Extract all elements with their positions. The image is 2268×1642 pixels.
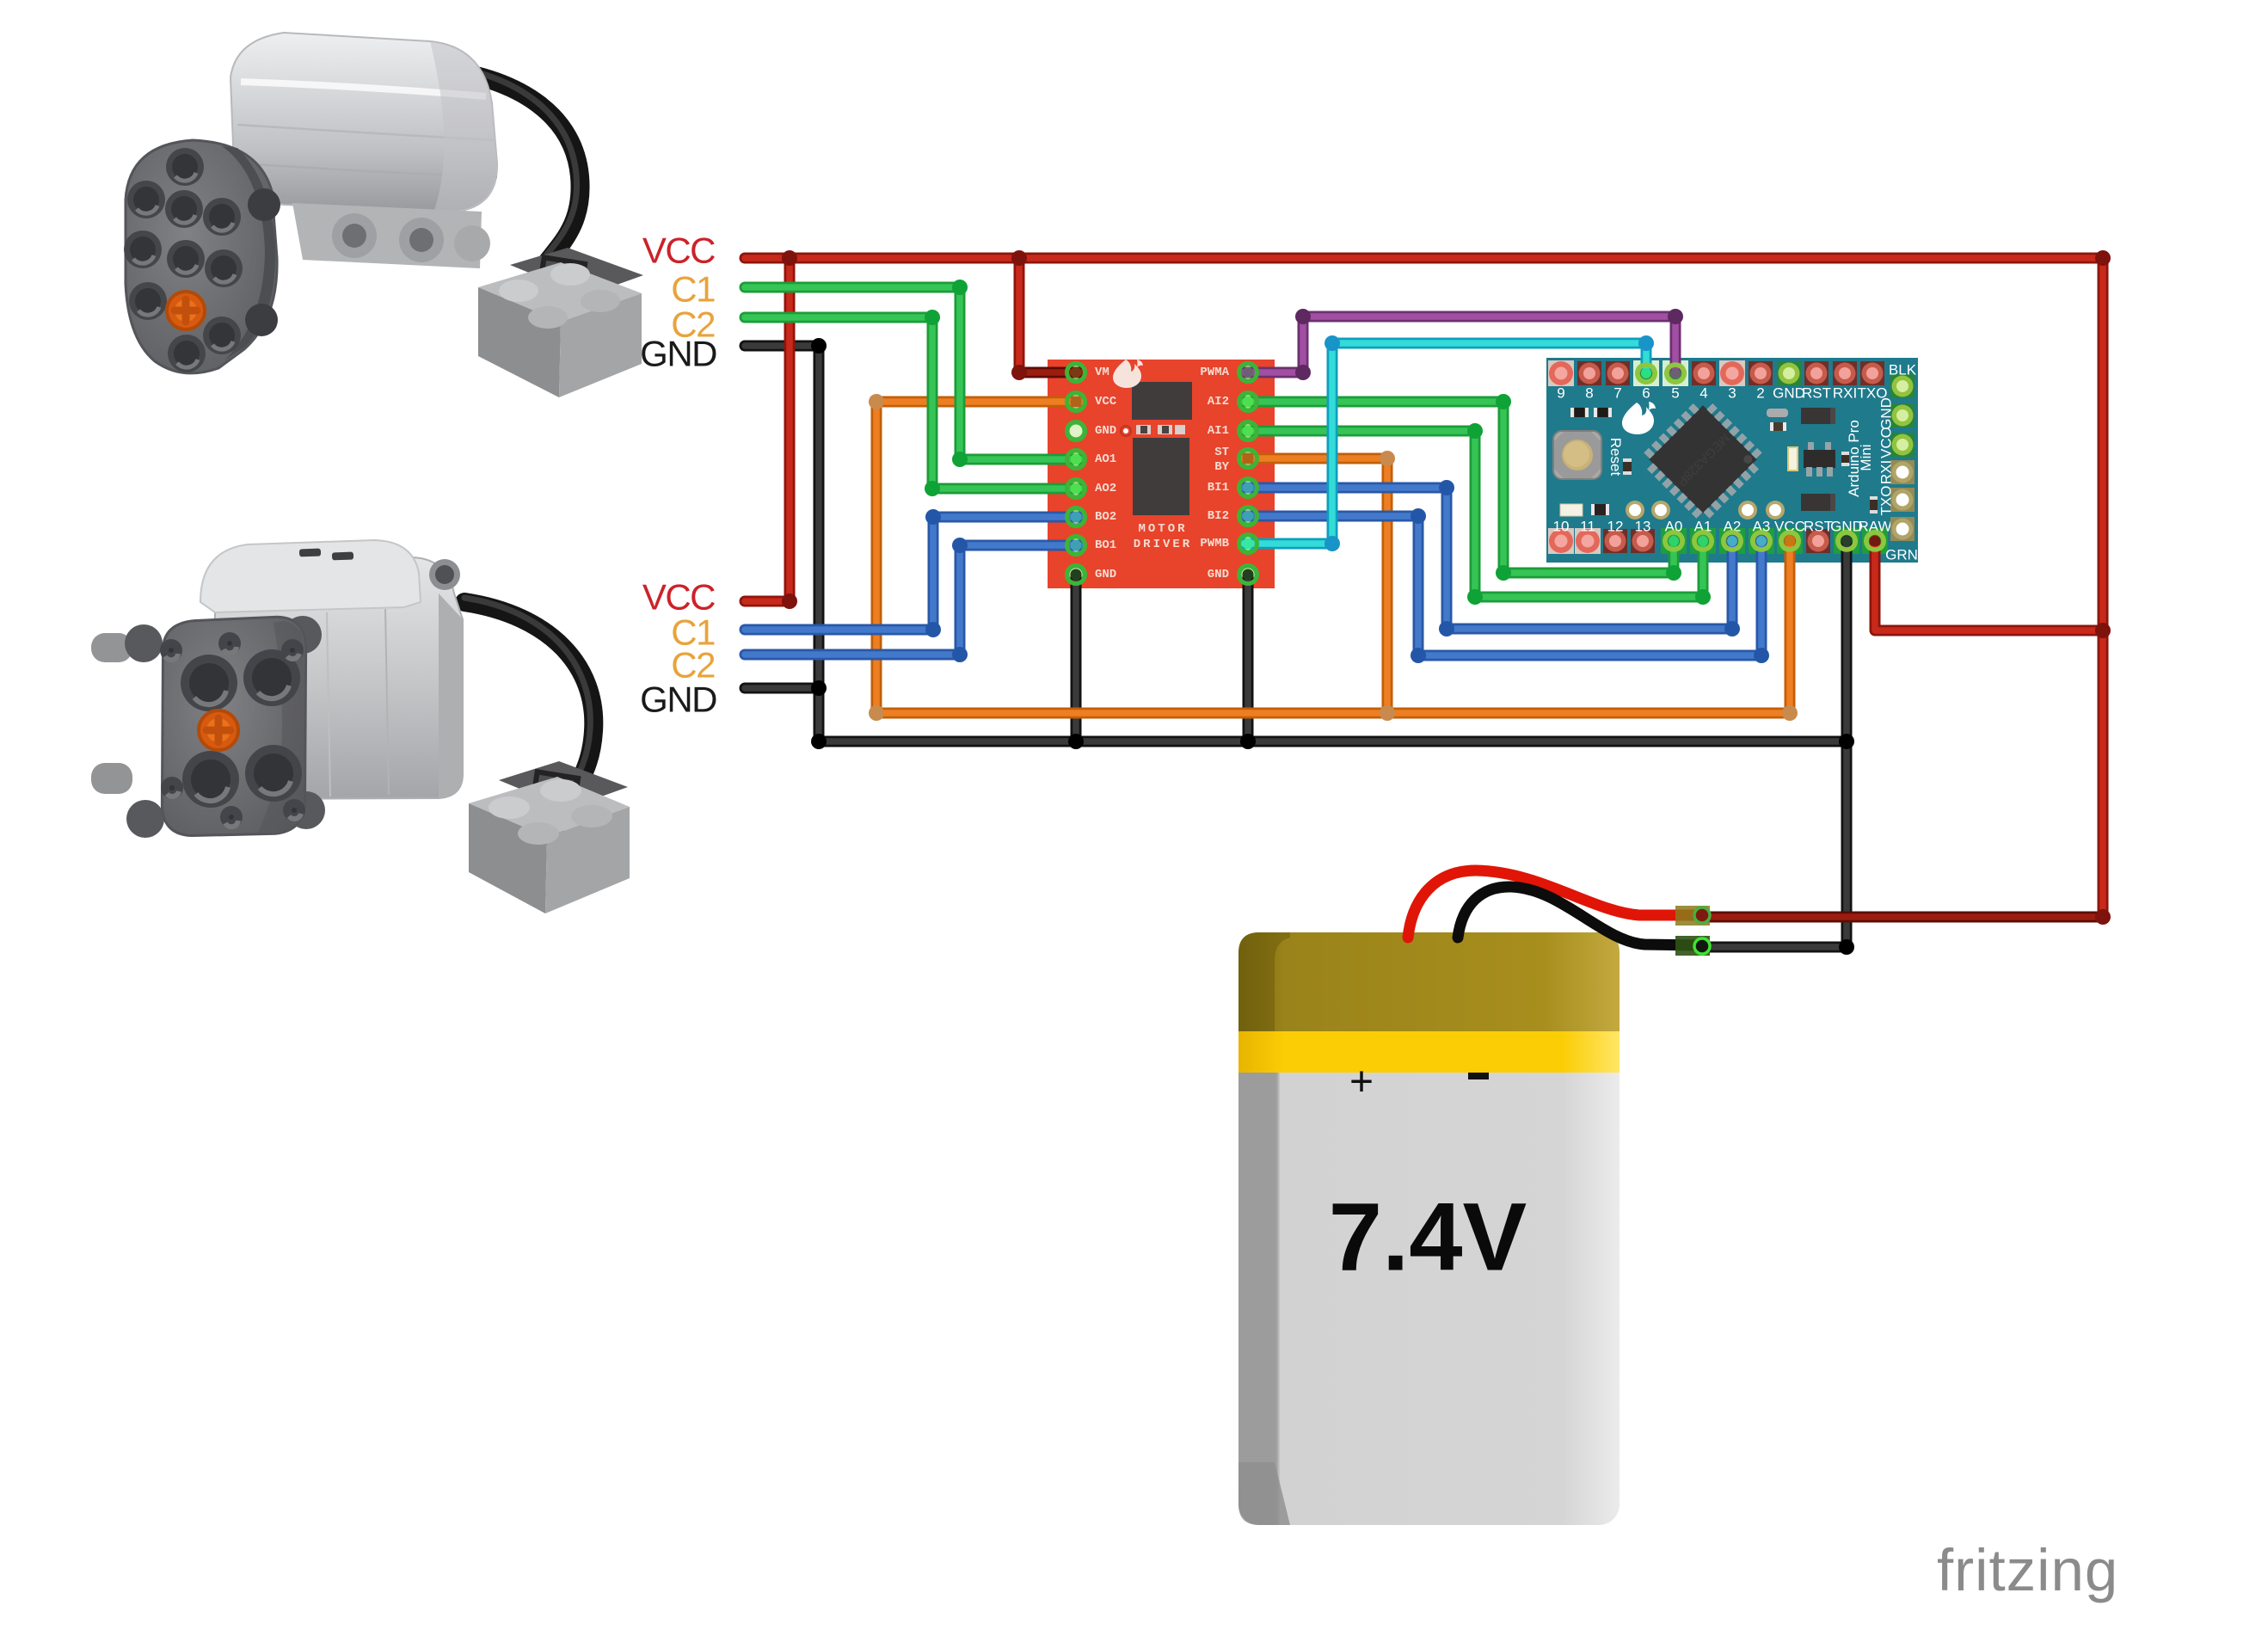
- svg-text:7.4V: 7.4V: [1329, 1184, 1527, 1291]
- svg-text:RST: RST: [1802, 385, 1831, 402]
- svg-text:13: 13: [1635, 519, 1651, 535]
- svg-text:VCC: VCC: [1095, 395, 1117, 409]
- svg-text:VM: VM: [1095, 366, 1109, 379]
- svg-text:Reset: Reset: [1607, 438, 1624, 477]
- svg-text:5: 5: [1671, 385, 1679, 402]
- svg-text:BY: BY: [1214, 460, 1229, 474]
- svg-text:BO2: BO2: [1095, 510, 1116, 524]
- svg-text:AO1: AO1: [1095, 452, 1116, 466]
- svg-text:9: 9: [1557, 385, 1564, 402]
- svg-text:PWMA: PWMA: [1200, 366, 1229, 379]
- svg-text:RXI: RXI: [1833, 385, 1857, 402]
- svg-text:GND: GND: [1095, 424, 1116, 438]
- svg-text:GND: GND: [1773, 385, 1805, 402]
- svg-text:GND: GND: [1208, 568, 1229, 581]
- svg-text:MOTOR: MOTOR: [1138, 522, 1187, 536]
- svg-text:VCC: VCC: [642, 231, 715, 271]
- svg-text:AO2: AO2: [1095, 482, 1116, 495]
- svg-text:PWMB: PWMB: [1200, 537, 1229, 550]
- svg-text:8: 8: [1585, 385, 1593, 402]
- svg-text:VCC: VCC: [642, 577, 715, 618]
- svg-text:12: 12: [1607, 519, 1624, 535]
- svg-text:AI1: AI1: [1208, 424, 1229, 438]
- svg-text:+: +: [1349, 1060, 1374, 1105]
- svg-text:4: 4: [1699, 385, 1707, 402]
- svg-text:RST: RST: [1804, 519, 1833, 535]
- svg-text:GND: GND: [640, 680, 716, 720]
- svg-text:Mini: Mini: [1858, 444, 1874, 470]
- svg-text:AI2: AI2: [1208, 395, 1229, 409]
- svg-text:BI2: BI2: [1208, 509, 1229, 523]
- svg-text:TXO: TXO: [1878, 486, 1895, 516]
- svg-text:10: 10: [1553, 519, 1570, 535]
- svg-text:2: 2: [1756, 385, 1764, 402]
- svg-text:6: 6: [1642, 385, 1650, 402]
- svg-text:11: 11: [1580, 519, 1595, 535]
- svg-text:C1: C1: [671, 269, 715, 310]
- svg-text:BI1: BI1: [1208, 481, 1229, 495]
- svg-text:GND: GND: [640, 334, 716, 374]
- svg-text:GND: GND: [1878, 397, 1895, 430]
- svg-text:VCC: VCC: [1878, 427, 1895, 458]
- svg-text:GRN: GRN: [1885, 547, 1918, 563]
- svg-text:BLK: BLK: [1889, 362, 1917, 378]
- svg-text:RXI: RXI: [1878, 460, 1895, 484]
- svg-text:GND: GND: [1095, 568, 1116, 581]
- svg-text:ST: ST: [1214, 446, 1229, 459]
- svg-text:DRIVER: DRIVER: [1134, 538, 1192, 551]
- svg-text:3: 3: [1728, 385, 1736, 402]
- svg-text:7: 7: [1613, 385, 1621, 402]
- svg-text:BO1: BO1: [1095, 538, 1116, 552]
- svg-text:fritzing: fritzing: [1937, 1537, 2118, 1603]
